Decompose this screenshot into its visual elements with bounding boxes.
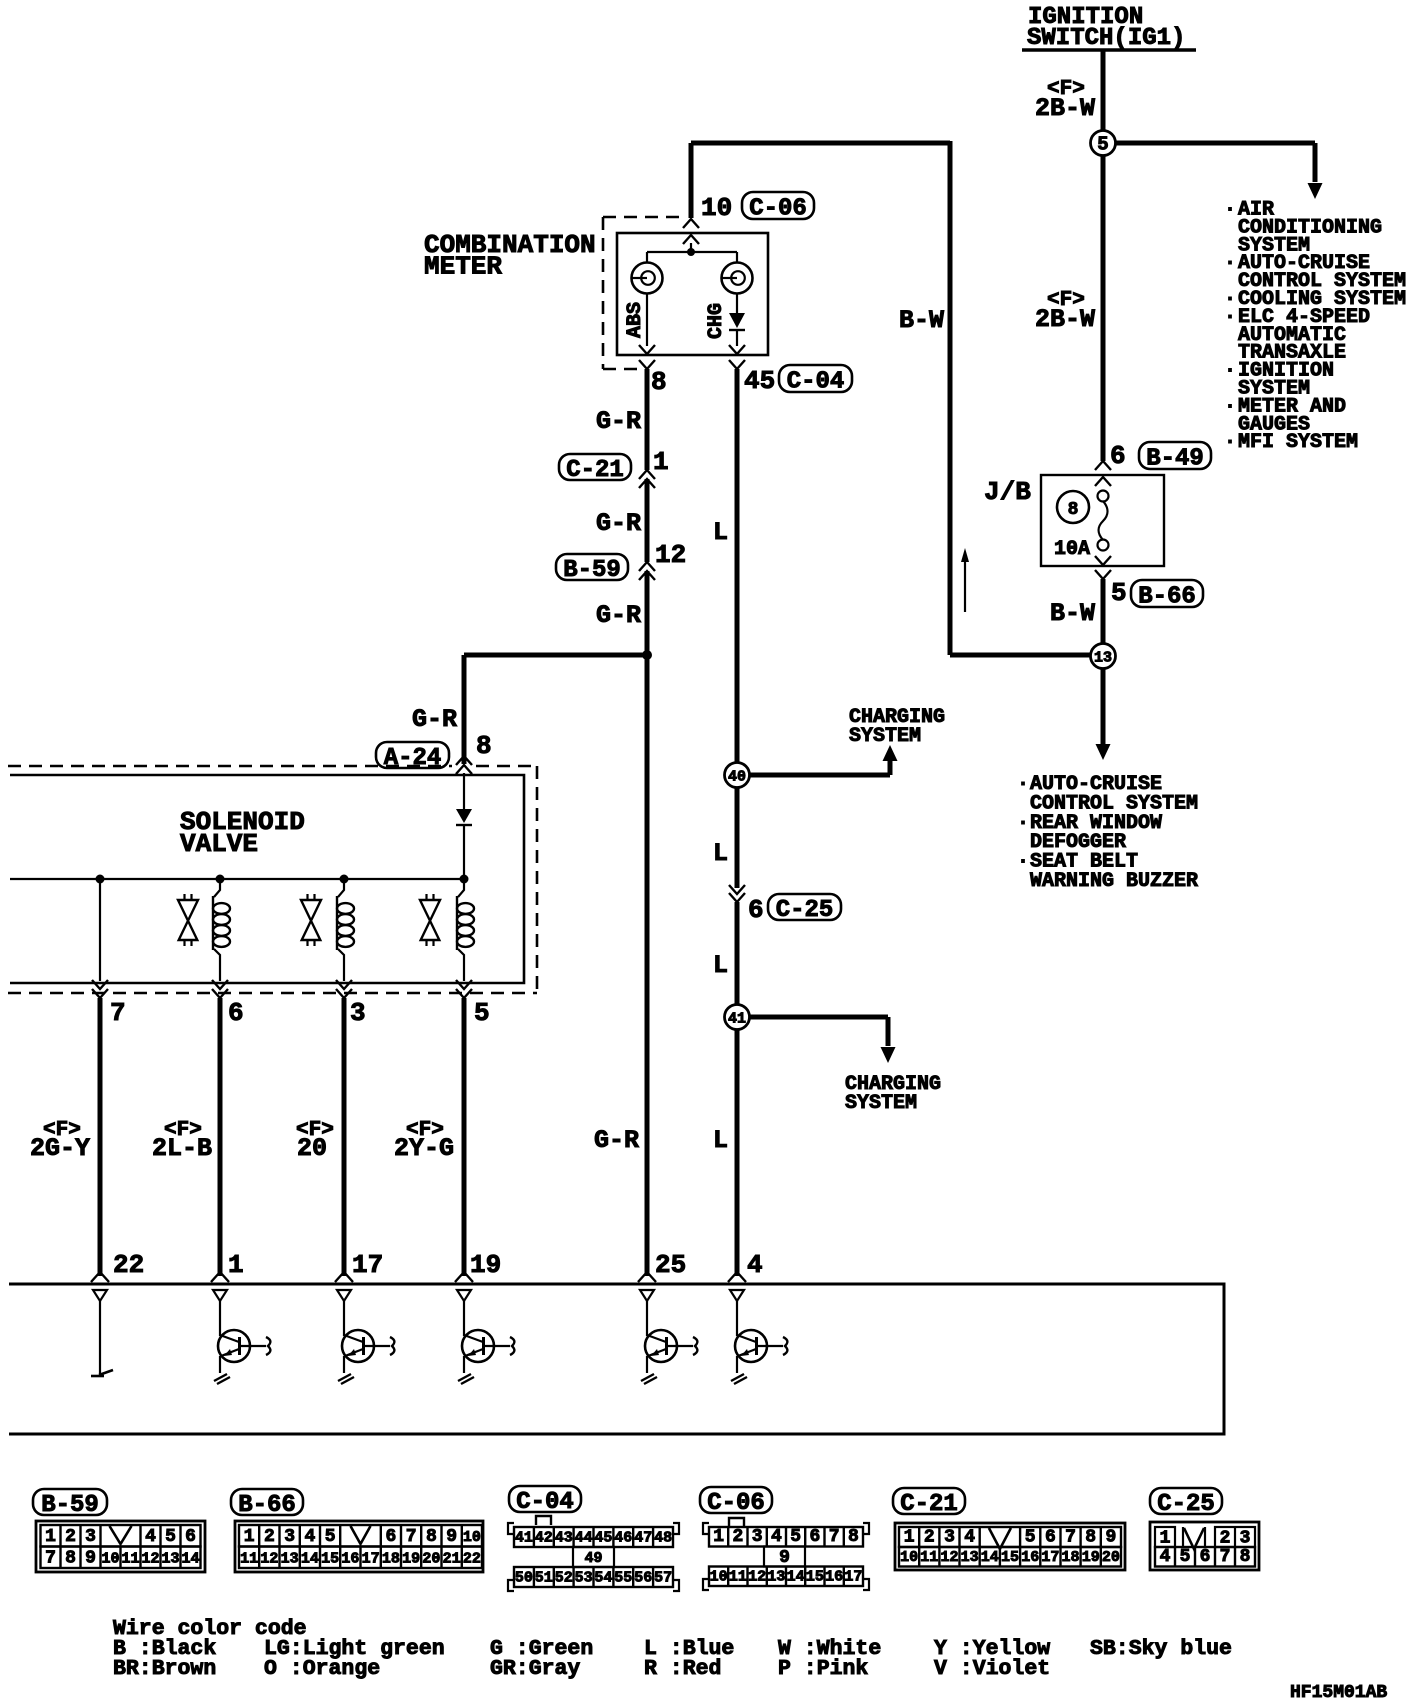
connector C-06 label <box>742 192 814 219</box>
svg-text:2: 2 <box>65 1527 76 1547</box>
connector C-21 label <box>559 454 631 480</box>
wire L <box>735 787 740 888</box>
svg-text:8: 8 <box>848 1527 859 1547</box>
junction node on solenoid bus x=464 <box>460 875 469 884</box>
svg-text:BR:Brown: BR:Brown <box>113 1657 216 1681</box>
terminal pin 22 <box>93 1290 107 1301</box>
node 5 (splice) <box>1091 131 1116 156</box>
svg-text:10: 10 <box>101 1551 119 1568</box>
svg-text:3: 3 <box>85 1527 96 1547</box>
svg-text:8: 8 <box>65 1549 76 1569</box>
terminal pin 4 <box>730 1290 744 1301</box>
connector B-59 label <box>556 554 628 580</box>
svg-text:A-24: A-24 <box>384 745 442 772</box>
chevron at ECU pin 25 <box>638 1272 656 1282</box>
svg-text:·: · <box>1224 199 1236 222</box>
svg-text:C-21: C-21 <box>566 457 624 484</box>
chevron at ECU pin 22 <box>91 1272 109 1282</box>
terminal pin 17 <box>337 1290 351 1301</box>
svg-text:1: 1 <box>1160 1529 1171 1549</box>
svg-text:19: 19 <box>470 1250 501 1280</box>
svg-text:4: 4 <box>964 1528 975 1548</box>
connector A-24 label <box>376 742 449 768</box>
svg-text:6: 6 <box>385 1527 396 1547</box>
svg-text:G-R: G-R <box>412 705 457 734</box>
svg-text:8: 8 <box>651 367 667 397</box>
svg-text:18: 18 <box>1061 1549 1079 1566</box>
svg-text:·: · <box>1224 395 1236 418</box>
svg-text:8: 8 <box>1068 500 1079 520</box>
svg-text:1: 1 <box>904 1528 915 1548</box>
svg-text:10: 10 <box>900 1549 918 1566</box>
label COMBINATION METER <box>424 230 596 282</box>
svg-text:4: 4 <box>771 1527 782 1547</box>
svg-text:C-06: C-06 <box>749 196 807 223</box>
svg-text:43: 43 <box>555 1530 573 1547</box>
svg-text:3: 3 <box>944 1528 955 1548</box>
svg-text:56: 56 <box>634 1570 652 1587</box>
svg-text:16: 16 <box>341 1551 359 1568</box>
svg-text:44: 44 <box>575 1530 593 1547</box>
svg-text:1: 1 <box>45 1527 56 1547</box>
svg-text:2: 2 <box>732 1527 743 1547</box>
wire ABS lamp to pin 8 <box>646 293 648 346</box>
svg-text:7: 7 <box>406 1527 417 1547</box>
chevron at ECU pin 1 <box>211 1272 229 1282</box>
svg-text:7: 7 <box>1220 1547 1231 1567</box>
svg-text:11: 11 <box>240 1551 258 1568</box>
chevrons at meter pin 10 <box>683 219 699 228</box>
svg-text:9: 9 <box>779 1548 790 1568</box>
svg-text:20: 20 <box>1102 1549 1120 1566</box>
label <F> 20 <box>296 1119 334 1163</box>
svg-text:5: 5 <box>165 1527 176 1547</box>
svg-text:19: 19 <box>1082 1549 1100 1566</box>
svg-text:C-21: C-21 <box>900 1491 958 1518</box>
svg-text:16: 16 <box>825 1569 843 1586</box>
svg-text:P :Pink: P :Pink <box>778 1657 868 1681</box>
svg-text:13: 13 <box>1094 650 1112 667</box>
svg-text:16: 16 <box>1021 1549 1039 1566</box>
svg-text:2: 2 <box>1220 1529 1231 1549</box>
svg-text:6: 6 <box>1045 1528 1056 1548</box>
connector B-49 label <box>1139 442 1211 469</box>
svg-text:1: 1 <box>653 447 669 477</box>
connector C-21 pinout <box>893 1488 1125 1570</box>
svg-text:O :Orange: O :Orange <box>264 1657 380 1681</box>
terminal pin 19 <box>457 1290 471 1301</box>
svg-text:6: 6 <box>748 895 764 925</box>
solenoid valve solid box (open left) <box>10 775 524 983</box>
connector B-66 label <box>1131 580 1203 607</box>
chevron below J/B pin 5 <box>1095 570 1111 579</box>
svg-text:10: 10 <box>701 193 732 223</box>
chevron at ECU pin 19 <box>455 1272 473 1282</box>
chevrons at A-24 <box>456 756 472 765</box>
J/B junction block box <box>1041 475 1164 566</box>
connector B-59 pinout <box>33 1489 205 1572</box>
node 41 (splice) <box>725 1005 750 1030</box>
svg-text:19: 19 <box>402 1551 420 1568</box>
svg-text:SWITCH(IG1): SWITCH(IG1) <box>1027 25 1185 52</box>
svg-text:7: 7 <box>1065 1528 1076 1548</box>
chevrons at C-21 <box>639 470 655 479</box>
fuse number circle 8 <box>1057 491 1089 523</box>
svg-text:5: 5 <box>790 1527 801 1547</box>
junction node on solenoid bus x=344 <box>340 875 349 884</box>
svg-text:B-59: B-59 <box>563 557 621 584</box>
svg-text:L: L <box>713 839 728 868</box>
svg-text:B-66: B-66 <box>1138 584 1196 611</box>
svg-text:17: 17 <box>1041 1549 1059 1566</box>
svg-text:14: 14 <box>181 1551 199 1568</box>
svg-text:2G-Y: 2G-Y <box>30 1134 90 1163</box>
svg-text:2: 2 <box>264 1527 275 1547</box>
solenoid coil 2 <box>337 883 354 981</box>
svg-text:2: 2 <box>924 1528 935 1548</box>
svg-text:L: L <box>713 1126 728 1155</box>
svg-text:J/B: J/B <box>984 477 1031 507</box>
chevron inside J/B bottom <box>1095 556 1111 565</box>
svg-text:11: 11 <box>920 1549 938 1566</box>
direction arrow (up) beside B-W wire <box>961 548 969 612</box>
connector C-04 pinout <box>508 1486 679 1591</box>
svg-text:17: 17 <box>352 1250 383 1280</box>
transistor at ECU pin 1 <box>214 1301 270 1384</box>
svg-text:47: 47 <box>634 1530 652 1547</box>
svg-text:WARNING BUZZER: WARNING BUZZER <box>1030 870 1198 893</box>
svg-text:6: 6 <box>1200 1547 1211 1567</box>
svg-text:SYSTEM: SYSTEM <box>845 1092 917 1115</box>
svg-text:SYSTEM: SYSTEM <box>849 725 921 748</box>
svg-text:C-04: C-04 <box>787 369 845 396</box>
solenoid valve dashed outline <box>8 766 537 993</box>
svg-text:15: 15 <box>1001 1549 1019 1566</box>
svg-text:12: 12 <box>655 540 686 570</box>
diode in CHG branch <box>729 293 745 346</box>
node A: systems list (air conditioning etc.) <box>1224 199 1406 455</box>
node B: systems list (auto-cruise, defogger, seat belt) <box>1017 773 1198 893</box>
svg-text:49: 49 <box>584 1550 602 1567</box>
svg-text:18: 18 <box>382 1551 400 1568</box>
svg-text:14: 14 <box>787 1569 805 1586</box>
svg-text:9: 9 <box>446 1527 457 1547</box>
branch wire to charging system (arrow down) <box>749 1017 896 1063</box>
svg-text:·: · <box>1017 773 1029 796</box>
svg-text:22: 22 <box>113 1250 144 1280</box>
wire <box>647 252 737 263</box>
label <F> 2L-B <box>152 1119 212 1163</box>
combination meter dashed outline <box>603 217 686 369</box>
svg-text:8: 8 <box>476 731 492 761</box>
label CHG (vertical) <box>705 303 728 339</box>
solenoid valve symbol 1 (hourglass) <box>178 894 198 946</box>
transistor at ECU pin 19 <box>458 1301 514 1384</box>
wire L <box>735 902 740 1005</box>
wire x=220 <box>218 998 223 1276</box>
wire color code legend <box>113 1617 1232 1681</box>
svg-text:9: 9 <box>85 1549 96 1569</box>
svg-text:1: 1 <box>228 1250 244 1280</box>
chevrons at meter bottom pins <box>639 345 655 354</box>
label <F> 2B-W (upper) <box>1035 78 1095 123</box>
connector C-04 label <box>779 365 852 392</box>
svg-text:3: 3 <box>1240 1529 1251 1549</box>
svg-text:·: · <box>1017 812 1029 835</box>
svg-text:3: 3 <box>350 998 366 1028</box>
svg-text:10: 10 <box>463 1529 481 1546</box>
svg-text:B-66: B-66 <box>238 1492 296 1519</box>
diode above solenoid bus <box>456 773 472 875</box>
svg-text:2B-W: 2B-W <box>1035 305 1095 334</box>
indicator lamp ABS <box>632 263 663 294</box>
svg-text:53: 53 <box>575 1570 593 1587</box>
ECU box (open left) <box>9 1284 1224 1434</box>
svg-text:B-49: B-49 <box>1146 446 1204 473</box>
svg-text:41: 41 <box>515 1530 533 1547</box>
solenoid coil 1 <box>213 883 230 981</box>
solenoid valve symbol 2 (hourglass) <box>301 894 321 946</box>
svg-text:10: 10 <box>710 1569 728 1586</box>
connector C-25 label <box>768 894 841 920</box>
svg-text:17: 17 <box>844 1569 862 1586</box>
svg-text:45: 45 <box>744 366 775 396</box>
transistor at ECU pin 17 <box>338 1301 394 1384</box>
wire G-R down to solenoid branch junction <box>645 571 650 1276</box>
svg-text:C-25: C-25 <box>1157 1491 1215 1518</box>
svg-text:4: 4 <box>747 1250 763 1280</box>
solenoid internal bus wire <box>10 878 464 880</box>
svg-text:2L-B: 2L-B <box>152 1134 212 1163</box>
svg-text:12: 12 <box>748 1569 766 1586</box>
svg-text:G-R: G-R <box>596 601 641 630</box>
svg-text:21: 21 <box>443 1551 461 1568</box>
svg-text:1: 1 <box>244 1527 255 1547</box>
svg-text:15: 15 <box>806 1569 824 1586</box>
svg-text:G-R: G-R <box>596 407 641 436</box>
node 40 (splice) <box>725 763 750 788</box>
fuse 8 10A symbol <box>1098 491 1109 551</box>
svg-text:13: 13 <box>161 1551 179 1568</box>
svg-text:4: 4 <box>145 1527 156 1547</box>
label <F> 2Y-G <box>394 1119 454 1163</box>
svg-text:13: 13 <box>281 1551 299 1568</box>
svg-text:MFI SYSTEM: MFI SYSTEM <box>1238 431 1358 454</box>
svg-text:L: L <box>713 518 728 547</box>
svg-text:10A: 10A <box>1054 538 1090 561</box>
svg-text:13: 13 <box>961 1549 979 1566</box>
svg-text:57: 57 <box>654 1570 672 1587</box>
svg-text:20: 20 <box>422 1551 440 1568</box>
svg-text:·: · <box>1224 360 1236 383</box>
svg-text:5: 5 <box>1111 578 1127 608</box>
solenoid coil 3 <box>457 883 474 981</box>
svg-text:22: 22 <box>463 1551 481 1568</box>
svg-text:5: 5 <box>325 1527 336 1547</box>
transistor at ECU pin 4 <box>731 1301 787 1384</box>
svg-text:G-R: G-R <box>594 1126 639 1155</box>
wire from node 5 to right with arrow to systems list <box>1116 143 1323 199</box>
wire L from meter pin 45 down <box>735 369 740 762</box>
label <F> 2G-Y <box>30 1119 90 1163</box>
wire x=344 <box>342 998 347 1276</box>
svg-text:6: 6 <box>809 1527 820 1547</box>
chevrons at C-25 <box>729 885 745 894</box>
svg-text:52: 52 <box>555 1570 573 1587</box>
svg-text:6: 6 <box>1110 441 1126 471</box>
svg-text:5: 5 <box>474 998 490 1028</box>
svg-text:48: 48 <box>654 1530 672 1547</box>
svg-text:45: 45 <box>594 1530 612 1547</box>
chevron inside J/B top <box>1095 477 1111 486</box>
svg-text:40: 40 <box>728 769 746 786</box>
svg-text:12: 12 <box>260 1551 278 1568</box>
svg-text:V :Violet: V :Violet <box>934 1657 1050 1681</box>
svg-text:G-R: G-R <box>596 509 641 538</box>
wire L down to ECU pin 4 <box>735 1029 740 1276</box>
svg-text:55: 55 <box>614 1570 632 1587</box>
svg-text:12: 12 <box>141 1551 159 1568</box>
chevron at ECU pin 4 <box>728 1272 746 1282</box>
svg-text:8: 8 <box>1085 1528 1096 1548</box>
junction node inside meter <box>687 248 695 256</box>
connector C-25 pinout <box>1150 1488 1259 1570</box>
junction at solenoid branch <box>642 650 652 660</box>
svg-text:C-04: C-04 <box>516 1489 574 1516</box>
svg-text:B-59: B-59 <box>41 1492 99 1519</box>
svg-text:20: 20 <box>297 1134 327 1163</box>
chevron into J/B pin 6 <box>1095 461 1111 470</box>
terminal pin 1 <box>213 1290 227 1301</box>
branch wire to charging system (arrow up) <box>749 745 898 775</box>
svg-text:·: · <box>1017 851 1029 874</box>
svg-text:42: 42 <box>535 1530 553 1547</box>
svg-text:·: · <box>1224 431 1236 454</box>
svg-text:11: 11 <box>729 1569 747 1586</box>
terminal pin 25 <box>640 1290 654 1301</box>
svg-text:6: 6 <box>185 1527 196 1547</box>
wire B-W vertical from top bus to node 13 <box>950 141 1090 655</box>
svg-text:1: 1 <box>713 1527 724 1547</box>
svg-text:8: 8 <box>426 1527 437 1547</box>
indicator lamp CHG <box>722 263 753 294</box>
svg-text:14: 14 <box>301 1551 319 1568</box>
svg-text:·: · <box>1224 306 1236 329</box>
wire G-R <box>645 479 650 562</box>
svg-text:C-25: C-25 <box>776 897 834 924</box>
svg-text:ABS: ABS <box>624 302 647 338</box>
svg-text:15: 15 <box>321 1551 339 1568</box>
wire x=100 <box>98 998 103 1276</box>
svg-text:54: 54 <box>594 1570 612 1587</box>
svg-text:HF15M01AB: HF15M01AB <box>1290 1683 1387 1703</box>
svg-text:17: 17 <box>362 1551 380 1568</box>
svg-text:51: 51 <box>535 1570 553 1587</box>
connector B-66 pinout <box>231 1489 483 1572</box>
wire 2B-W from node 5 down to J/B <box>1101 155 1106 461</box>
wire B-W from ignition switch to node 5 <box>1101 51 1106 131</box>
junction node on solenoid bus x=220 <box>216 875 225 884</box>
svg-text:C-06: C-06 <box>707 1490 765 1517</box>
wire into lamps with junction <box>690 243 692 252</box>
wire x=464 <box>462 998 467 1276</box>
svg-text:8: 8 <box>1240 1547 1251 1567</box>
svg-text:B-W: B-W <box>1050 599 1095 628</box>
svg-text:6: 6 <box>228 998 244 1028</box>
label CHARGING SYSTEM (lower) <box>845 1073 941 1115</box>
power source IGNITION SWITCH(IG1) <box>1022 4 1196 52</box>
svg-text:CHG: CHG <box>705 303 728 339</box>
node 13 (splice) <box>1091 644 1116 669</box>
svg-text:VALVE: VALVE <box>180 829 258 859</box>
svg-text:7: 7 <box>110 998 126 1028</box>
svg-text:7: 7 <box>45 1549 56 1569</box>
svg-text:7: 7 <box>829 1527 840 1547</box>
svg-text:2Y-G: 2Y-G <box>394 1134 454 1163</box>
svg-text:B-W: B-W <box>899 306 944 335</box>
junction node on solenoid bus x=100 <box>96 875 105 884</box>
top bus wire from combination meter to B-W wire <box>691 143 950 218</box>
svg-text:46: 46 <box>614 1530 632 1547</box>
svg-text:12: 12 <box>940 1549 958 1566</box>
svg-text:SB:Sky blue: SB:Sky blue <box>1090 1637 1232 1661</box>
wire from node 13 down with arrow <box>1096 668 1111 760</box>
svg-text:2B-W: 2B-W <box>1035 94 1095 123</box>
svg-text:9: 9 <box>1105 1528 1116 1548</box>
svg-text:50: 50 <box>515 1570 533 1587</box>
svg-text:4: 4 <box>1160 1547 1171 1567</box>
svg-text:4: 4 <box>304 1527 315 1547</box>
chevrons at solenoid box bottom pins 7/6/3/5 <box>92 980 108 989</box>
connector C-06 pinout <box>700 1487 869 1590</box>
label CHARGING SYSTEM (upper) <box>849 706 945 748</box>
svg-text:3: 3 <box>284 1527 295 1547</box>
svg-text:GR:Gray: GR:Gray <box>490 1657 580 1681</box>
svg-text:3: 3 <box>752 1527 763 1547</box>
svg-text:11: 11 <box>121 1551 139 1568</box>
solenoid valve symbol 3 (hourglass) <box>420 894 440 946</box>
svg-text:R :Red: R :Red <box>644 1657 721 1681</box>
chevrons at B-59 <box>639 562 655 571</box>
wire B-W from J/B to node 13 <box>1101 579 1106 644</box>
svg-text:·: · <box>1224 252 1236 275</box>
combination meter solid box <box>617 233 768 355</box>
svg-text:L: L <box>713 951 728 980</box>
transistor at ECU pin 25 <box>641 1301 697 1384</box>
label <F> 2B-W (lower) <box>1035 289 1095 334</box>
svg-text:25: 25 <box>655 1250 686 1280</box>
label ABS (vertical) <box>624 302 647 338</box>
svg-text:5: 5 <box>1180 1547 1191 1567</box>
svg-text:5: 5 <box>1025 1528 1036 1548</box>
branch bus from G-R junction to solenoid valve <box>464 655 647 764</box>
svg-text:14: 14 <box>981 1549 999 1566</box>
pin 22 internal wire with chassis ground <box>91 1301 113 1376</box>
svg-text:5: 5 <box>1097 134 1108 156</box>
wire G-R from meter pin 8 down <box>645 369 650 470</box>
svg-text:41: 41 <box>728 1011 746 1028</box>
label SOLENOID VALVE <box>180 807 305 859</box>
svg-text:13: 13 <box>767 1569 785 1586</box>
svg-text:METER: METER <box>424 252 502 282</box>
chevron at ECU pin 17 <box>335 1272 353 1282</box>
plain wire to pin 7 <box>99 879 101 981</box>
